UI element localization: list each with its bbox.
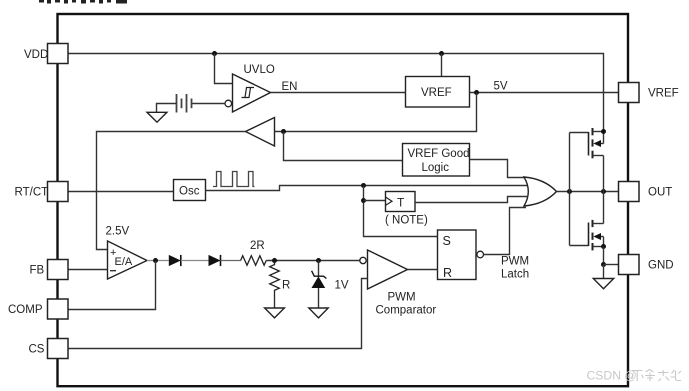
wire gate drive rail bbox=[569, 133, 571, 246]
wire battery to bubble bbox=[192, 103, 226, 105]
ground (divider) bbox=[265, 308, 285, 318]
svg-text:R: R bbox=[282, 280, 290, 292]
svg-text:R: R bbox=[443, 266, 452, 280]
node osc branch bbox=[361, 183, 366, 188]
node E/A output bbox=[153, 258, 158, 263]
svg-text:1V: 1V bbox=[335, 280, 349, 292]
block Osc bbox=[174, 180, 206, 201]
svg-text:RT/CT: RT/CT bbox=[15, 186, 49, 198]
svg-text:Comparator: Comparator bbox=[376, 305, 437, 317]
ground (output stage) bbox=[593, 279, 613, 289]
node T input junction bbox=[361, 198, 366, 203]
pin COMP bbox=[48, 299, 69, 319]
resistor 2R bbox=[241, 256, 267, 266]
wire 2R to comparator bbox=[266, 260, 360, 262]
wire between diodes bbox=[181, 260, 209, 262]
node UVLO input bubble bbox=[225, 100, 232, 107]
node VDD-UVLO junction bbox=[212, 51, 217, 56]
svg-text:PWM: PWM bbox=[388, 292, 416, 304]
svg-text:CSDN @: CSDN @ bbox=[587, 369, 637, 383]
block T flip-flop bbox=[386, 192, 416, 212]
pin VREF bbox=[619, 83, 640, 103]
svg-text:GND: GND bbox=[648, 259, 674, 271]
transistor Q2 lower MOSFET bbox=[570, 192, 607, 265]
svg-text:VREF Good: VREF Good bbox=[408, 148, 470, 160]
wire FB input bbox=[68, 269, 108, 271]
diode D2 bbox=[209, 255, 221, 266]
zener clamp 1V bbox=[318, 261, 320, 277]
node VDD-VREF junction bbox=[439, 51, 444, 56]
svg-text:Osc: Osc bbox=[179, 186, 200, 198]
title text (cut off at top) bbox=[39, 0, 127, 4]
node 5V junction bbox=[474, 90, 479, 95]
wire to T block bbox=[364, 200, 386, 202]
node gate-drive junction bbox=[567, 189, 572, 194]
svg-text:PWM: PWM bbox=[501, 256, 529, 268]
wire 5V to buffer input bbox=[275, 93, 477, 132]
wire T to OR gate bbox=[415, 197, 527, 203]
svg-text:Logic: Logic bbox=[422, 162, 450, 174]
node GND junction bbox=[601, 262, 606, 267]
pin FB bbox=[48, 260, 69, 280]
svg-text:VREF: VREF bbox=[648, 88, 679, 100]
wire comparator to latch R bbox=[408, 269, 438, 271]
node OUT junction bbox=[601, 189, 606, 194]
node buffer input junction bbox=[281, 129, 286, 134]
wire CS bbox=[68, 279, 368, 349]
wire latch to OR gate bbox=[484, 208, 527, 255]
svg-text:EN: EN bbox=[282, 81, 298, 93]
buffer 2.5V reference amp bbox=[246, 118, 275, 147]
diode D1 bbox=[169, 255, 181, 266]
wire VDD rail bbox=[68, 54, 604, 132]
svg-text:OUT: OUT bbox=[648, 186, 672, 198]
comparator UVLO bbox=[233, 74, 271, 112]
svg-text:( NOTE): ( NOTE) bbox=[385, 215, 428, 227]
svg-text:5V: 5V bbox=[494, 81, 508, 93]
wire EN bbox=[271, 92, 406, 94]
svg-text:UVLO: UVLO bbox=[244, 64, 275, 76]
svg-text:S: S bbox=[443, 234, 451, 248]
pin OUT bbox=[619, 182, 640, 202]
svg-text:VDD: VDD bbox=[24, 49, 48, 61]
wire RT/CT to Osc bbox=[68, 191, 174, 193]
wire diode to 2R bbox=[221, 260, 241, 262]
transistor Q1 upper MOSFET bbox=[570, 128, 607, 192]
clock waveform bbox=[213, 172, 255, 187]
wire UVLO top input bbox=[215, 54, 233, 84]
svg-text:T: T bbox=[397, 196, 405, 210]
node divider junction bbox=[272, 258, 277, 263]
wire Osc to OR gate bbox=[206, 186, 528, 191]
wire 5V to VREF pin bbox=[470, 92, 619, 94]
wire GND pin bbox=[604, 264, 619, 266]
svg-text:VREF: VREF bbox=[421, 87, 452, 99]
block VREF bbox=[406, 77, 470, 108]
wire E/A output bbox=[147, 260, 169, 262]
battery reference bbox=[177, 94, 192, 113]
ground (UVLO reference) bbox=[147, 112, 167, 122]
svg-text:COMP: COMP bbox=[8, 304, 43, 316]
svg-text:2R: 2R bbox=[250, 240, 265, 252]
wire COMP bbox=[68, 261, 156, 310]
svg-text:Latch: Latch bbox=[501, 269, 529, 281]
wire 2.5V to E/A plus input bbox=[97, 132, 246, 250]
svg-text:CS: CS bbox=[29, 344, 45, 356]
svg-text:2.5V: 2.5V bbox=[106, 226, 130, 238]
gate OR bbox=[524, 177, 557, 206]
svg-text:E/A: E/A bbox=[115, 256, 133, 268]
latch SR bbox=[438, 230, 477, 280]
ground (zener) bbox=[309, 308, 328, 318]
block VREF Good Logic bbox=[403, 144, 470, 177]
node zener junction bbox=[316, 258, 321, 263]
wire VREF top tap bbox=[441, 54, 443, 77]
pin CS bbox=[48, 339, 69, 359]
wire OR output to OUT pin bbox=[557, 191, 619, 193]
wire battery to ground bbox=[157, 104, 177, 113]
wire to ground symbol bbox=[603, 265, 605, 279]
pin VDD bbox=[48, 44, 69, 64]
pin RT/CT bbox=[48, 182, 69, 202]
comparator PWM bbox=[360, 257, 366, 263]
outer block border bbox=[58, 14, 629, 386]
svg-text:FB: FB bbox=[30, 264, 45, 276]
pin GND bbox=[619, 255, 640, 275]
resistor R bbox=[270, 261, 280, 297]
wire R to ground bbox=[274, 296, 276, 308]
wire to VREF Good Logic bbox=[284, 132, 403, 161]
wire branch down to latch S bbox=[364, 186, 438, 237]
node latch output bubble bbox=[477, 251, 484, 258]
wire VREF Good Logic to OR gate bbox=[470, 160, 527, 178]
